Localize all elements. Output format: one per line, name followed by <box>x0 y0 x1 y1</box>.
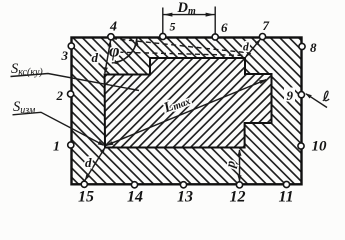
thickness d at point 7 (arrow from node 7 to inner corner) <box>245 39 260 57</box>
node 1 circle <box>68 142 74 148</box>
label 9 <box>284 88 295 102</box>
dashed ray A from point 4 to point 7 region <box>112 39 250 54</box>
L_max diagonal arrow between opposite inner corners <box>106 80 266 146</box>
thickness d at point 4 (arrow from node 4 to inner corner) <box>105 40 111 74</box>
node 3 circle <box>68 43 74 49</box>
angle phi arc at point 4 <box>112 39 137 63</box>
svg-text:d: d <box>243 42 249 54</box>
label ell (script l) near node 9 <box>323 91 329 101</box>
node 12 circle <box>236 182 242 188</box>
svg-text:1: 1 <box>53 140 60 155</box>
svg-text:5: 5 <box>170 20 176 34</box>
leader arrow to node 9 <box>306 94 327 108</box>
node 6 circle <box>212 34 218 40</box>
inner stepped contour (inner surface of section) <box>105 58 272 148</box>
node 2 circle <box>68 91 74 97</box>
hatched wall band (section between outer surface and inner surface) <box>0 36 345 194</box>
D_m dimension extension lines from nodes 5 and 6 <box>163 7 215 34</box>
svg-text:9: 9 <box>287 88 294 103</box>
svg-text:4: 4 <box>109 20 117 35</box>
svg-text:3: 3 <box>61 48 69 63</box>
svg-text:12: 12 <box>230 189 246 206</box>
node 5 circle <box>160 33 166 39</box>
node 15 circle <box>81 181 87 187</box>
hatched inner block (measured cross-section S_изм) <box>0 30 345 190</box>
svg-text:10: 10 <box>312 139 328 155</box>
D_m dimension line with arrows <box>163 14 214 16</box>
svg-text:11: 11 <box>279 189 294 206</box>
svg-text:2: 2 <box>56 88 64 103</box>
node 10 circle <box>298 143 304 149</box>
svg-text:6: 6 <box>221 20 228 35</box>
node 13 circle <box>180 182 186 188</box>
dashed ray B from point 4 to point 7 region <box>110 52 247 56</box>
node 7 circle <box>259 34 265 40</box>
thickness d at point 12 (vertical arrow) <box>239 150 241 182</box>
svg-text:7: 7 <box>263 18 270 33</box>
svg-text:d: d <box>85 155 92 170</box>
node 8 circle <box>299 43 305 49</box>
svg-text:8: 8 <box>310 40 317 55</box>
svg-text:14: 14 <box>127 189 143 206</box>
outer contour rectangle (outer surface) <box>72 38 302 185</box>
svg-text:15: 15 <box>78 189 94 206</box>
label L_max <box>161 92 193 117</box>
node 9 circle <box>298 92 304 98</box>
node 14 circle <box>131 182 137 188</box>
svg-text:d: d <box>92 50 99 65</box>
node 11 circle <box>283 181 289 187</box>
thickness d at point 15 (arrow from node 15 to inner corner) <box>85 147 105 180</box>
node 4 circle <box>108 34 114 40</box>
svg-text:13: 13 <box>177 189 193 206</box>
